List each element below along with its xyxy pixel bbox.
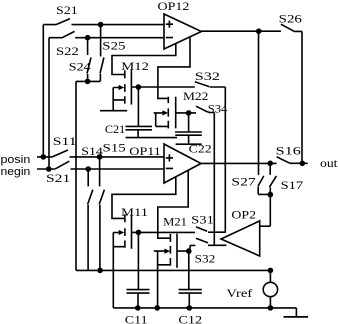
svg-text:S34: S34 [208,102,228,116]
svg-text:Vref: Vref [226,286,252,300]
svg-text:posin: posin [1,154,31,166]
svg-text:M21: M21 [163,214,187,228]
svg-text:M22: M22 [183,89,208,103]
svg-text:C11: C11 [125,313,148,324]
svg-text:OP2: OP2 [231,208,256,222]
svg-text:S21: S21 [56,3,78,17]
svg-text:C21: C21 [105,122,125,136]
svg-text:S24: S24 [69,59,91,73]
svg-text:OP11: OP11 [129,144,161,158]
svg-text:S31: S31 [191,212,214,226]
svg-text:S11: S11 [53,134,77,148]
svg-text:M12: M12 [121,59,149,73]
svg-text:S27: S27 [231,174,255,188]
svg-text:S14: S14 [81,144,103,158]
svg-text:M11: M11 [121,205,148,219]
svg-text:S22: S22 [56,44,79,58]
svg-text:S26: S26 [279,11,302,25]
svg-text:OP12: OP12 [158,0,190,13]
svg-text:S32: S32 [195,69,220,83]
svg-text:S32: S32 [195,251,216,265]
svg-text:S25: S25 [102,39,125,53]
svg-text:S15: S15 [103,141,126,155]
svg-text:S17: S17 [281,178,304,192]
svg-text:S16: S16 [276,144,301,158]
svg-text:S21: S21 [46,171,70,185]
svg-text:C22: C22 [189,142,212,156]
svg-text:negin: negin [1,166,31,178]
svg-text:out: out [320,156,338,170]
svg-text:C12: C12 [178,313,202,324]
